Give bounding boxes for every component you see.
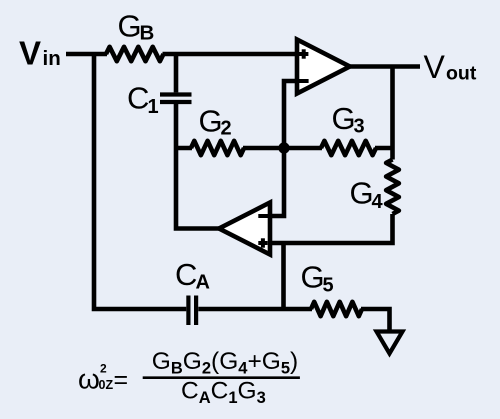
resistor GB [106,47,164,61]
formula fraction bar [143,376,300,379]
op-amp U1 [297,40,350,94]
wire: G2 row from C1 branch to node A [176,146,284,151]
capacitor CA [188,296,196,326]
svg-text:=: = [114,366,129,394]
capacitor C1 [160,95,192,103]
wire: C1 branch vertical from top rail [174,52,179,92]
svg-text:GBG2(G4+G5): GBG2(G4+G5) [152,348,298,378]
svg-text:2: 2 [100,362,107,376]
wire: left vertical from Vin node down to bottom rail [94,52,186,309]
wire: C1 bottom plate down to op-amp U2 output [176,104,221,229]
formula denominator CAC1G3 [181,378,266,408]
label G4 [350,176,384,214]
label G2 [199,104,232,140]
svg-text:A: A [196,272,210,294]
svg-text:5: 5 [323,275,334,297]
formula numerator GBG2(G4+G5) [152,348,298,378]
wire: bottom rail from CA through G5 to ground [198,309,389,332]
label CA [175,257,210,294]
label G3 [332,101,365,138]
formula omega 0Z squared equals [78,362,128,395]
resistor G3 [321,141,376,155]
svg-text:G: G [332,101,356,136]
svg-text:out: out [446,62,477,84]
svg-text:V: V [19,34,41,71]
resistor G4 [386,160,399,215]
label G5 [301,260,334,297]
svg-text:B: B [140,21,155,44]
label Vin [19,34,61,71]
op-amp U2 [219,203,270,255]
svg-text:G: G [350,176,374,211]
svg-text:4: 4 [372,191,384,213]
resistor G5 [311,302,362,316]
op-amp U2 minus input marker [258,214,272,218]
svg-text:in: in [43,47,61,70]
op-amp U1 minus input marker [299,79,309,83]
label C1 [127,81,159,118]
svg-text:C: C [127,81,149,116]
svg-text:V: V [424,49,446,85]
label Vout [424,49,477,85]
ground [377,332,403,354]
svg-text:G: G [301,260,325,295]
resistor G2 [191,141,244,155]
wire: U1 output to Vout [350,64,420,69]
svg-text:C: C [175,257,197,292]
wire: G4 bottom to U2 plus input row [270,214,393,243]
svg-text:3: 3 [354,116,365,138]
label GB [118,8,155,44]
svg-text:0Z: 0Z [99,378,114,392]
op-amp U1 plus input marker [299,49,308,58]
svg-text:2: 2 [221,118,232,140]
node A junction dot [278,142,289,153]
svg-text:1: 1 [148,96,159,118]
wire: G3 row from node A to right vertical [284,146,393,151]
svg-text:G: G [118,8,142,43]
svg-text:CAC1G3: CAC1G3 [181,378,266,408]
wire: right vertical from output node down to G4 [390,67,395,160]
svg-text:ω: ω [78,364,100,395]
wire: Vin to op-amp U1 plus input (top rail) [66,52,300,57]
svg-text:G: G [199,104,223,139]
op-amp U2 plus input marker [258,238,267,247]
wire: feedback vertical from U1 minus input through node A down to U2 minus input [270,81,297,216]
wire: branch from U2 plus row down to bottom rail [281,243,286,309]
